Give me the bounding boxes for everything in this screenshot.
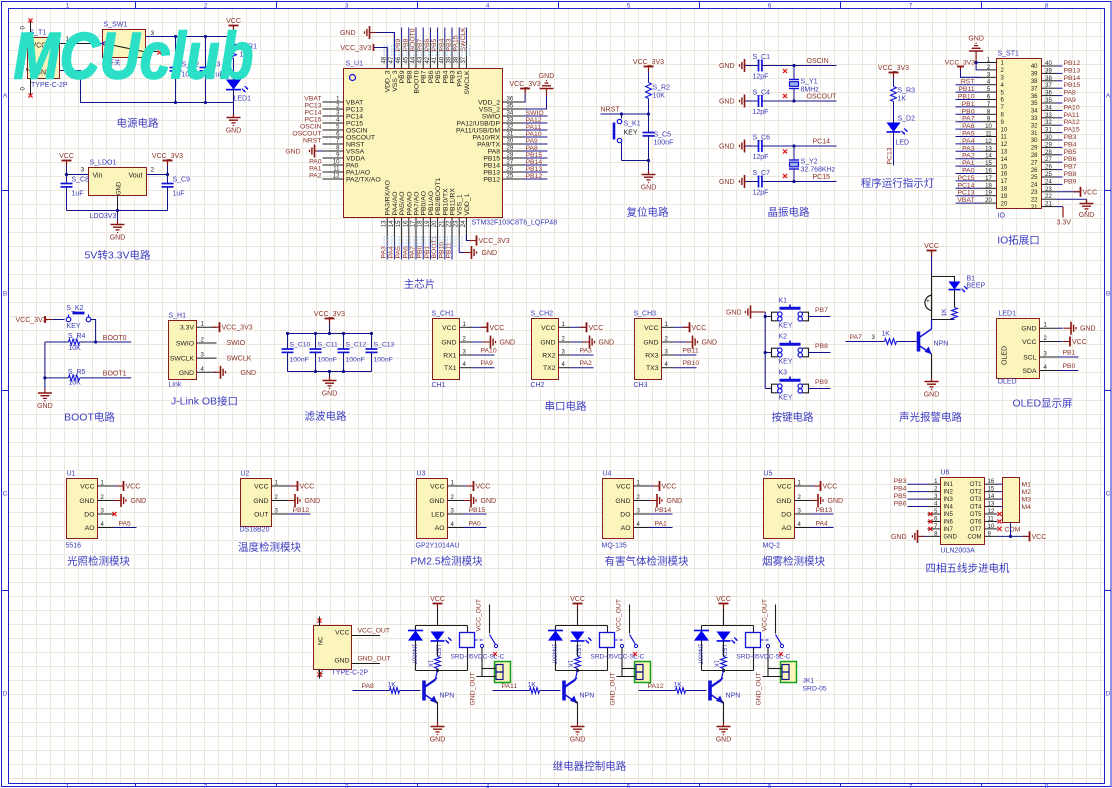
svg-text:S_Y2: S_Y2 <box>801 159 818 166</box>
svg-text:17: 17 <box>1001 179 1008 185</box>
svg-text:BOOT1: BOOT1 <box>431 235 438 258</box>
svg-text:OSCOUT: OSCOUT <box>292 131 321 138</box>
svg-text:VSS_3: VSS_3 <box>392 70 399 91</box>
buzzer symbol <box>925 295 932 319</box>
wire LED1 to GND <box>233 88 235 113</box>
svg-text:6: 6 <box>768 3 772 10</box>
svg-text:PA2/TX/AO: PA2/TX/AO <box>346 177 381 184</box>
svg-text:PB5: PB5 <box>894 493 907 500</box>
svg-text:GND: GND <box>828 498 844 505</box>
svg-text:22: 22 <box>1031 197 1038 203</box>
svg-text:18: 18 <box>1001 187 1008 193</box>
wire R1 to LED1 <box>233 59 235 80</box>
svg-text:33: 33 <box>1045 113 1052 119</box>
svg-text:VCC_3V3: VCC_3V3 <box>340 45 371 52</box>
svg-text:GND_OUT: GND_OUT <box>610 672 617 705</box>
svg-text:PA3/RX/AO: PA3/RX/AO <box>385 180 392 215</box>
wire R3 to D2 <box>893 102 895 123</box>
svg-text:PA1: PA1 <box>309 166 322 173</box>
net PA1 (U4) <box>650 521 673 528</box>
svg-text:35: 35 <box>1031 101 1038 107</box>
power port VCC (alarm) <box>924 243 939 256</box>
svg-text:OSCOUT: OSCOUT <box>346 135 375 142</box>
power VCC (relay PA12) <box>716 596 731 609</box>
svg-text:GND: GND <box>117 181 123 195</box>
net PB13 (U5) <box>811 507 834 514</box>
svg-text:PA2: PA2 <box>309 173 322 180</box>
ground at MCU pin8 VSSA <box>285 145 322 158</box>
resistor 1K (relay PA12) <box>713 641 727 669</box>
svg-text:1K: 1K <box>882 331 891 338</box>
svg-text:BOOT0: BOOT0 <box>103 335 127 342</box>
wire emitter to GND (alarm) <box>931 354 933 378</box>
svg-text:PA6: PA6 <box>402 246 409 259</box>
svg-text:1uF: 1uF <box>173 191 185 198</box>
svg-text:VBAT: VBAT <box>304 96 321 103</box>
svg-text:AO: AO <box>435 525 445 532</box>
svg-text:3: 3 <box>345 3 349 10</box>
svg-text:主芯片: 主芯片 <box>404 278 436 291</box>
base resistor 1K (PA8) <box>353 682 421 694</box>
svg-text:NPN: NPN <box>726 693 741 700</box>
svg-text:VCC_OUT: VCC_OUT <box>762 599 769 631</box>
svg-text:12: 12 <box>333 174 340 180</box>
power port VCC (LDO) <box>59 153 74 166</box>
svg-text:S_C9: S_C9 <box>173 177 191 184</box>
svg-text:24: 24 <box>1045 179 1052 185</box>
svg-text:PB4: PB4 <box>894 486 907 493</box>
svg-text:OSCIN: OSCIN <box>346 128 368 135</box>
svg-text:PB15: PB15 <box>1064 82 1081 89</box>
transistor NPN (relay PA8) <box>424 671 454 704</box>
svg-text:37: 37 <box>1045 83 1052 89</box>
svg-text:PA8: PA8 <box>362 683 375 690</box>
svg-text:VCC: VCC <box>616 484 630 491</box>
svg-text:36: 36 <box>507 97 514 103</box>
module U3 (GP2Y1014AU) <box>416 471 464 550</box>
svg-text:PB10: PB10 <box>438 242 445 259</box>
svg-text:OSCIN: OSCIN <box>300 124 322 131</box>
svg-text:40: 40 <box>1045 61 1052 67</box>
svg-text:16: 16 <box>985 169 992 175</box>
svg-text:PB4: PB4 <box>442 70 449 83</box>
svg-text:PA11: PA11 <box>1064 112 1080 119</box>
svg-text:32.768KHz: 32.768KHz <box>801 167 836 174</box>
svg-text:A: A <box>3 93 8 100</box>
svg-text:VCC: VCC <box>1083 189 1098 196</box>
relay output connector (PA11) <box>617 662 651 683</box>
svg-text:K1: K1 <box>779 298 788 305</box>
svg-text:PB11: PB11 <box>446 242 453 258</box>
serial header S_CH3 <box>634 311 674 390</box>
svg-text:22: 22 <box>1045 194 1052 200</box>
LED of buzzer branch <box>949 282 968 308</box>
svg-text:继电器控制电路: 继电器控制电路 <box>553 760 627 773</box>
net VCC_OUT (relay PA11) <box>616 599 630 633</box>
power VCC (OLED) <box>1058 337 1087 347</box>
svg-text:40: 40 <box>1031 64 1038 70</box>
power VCC at ST1 pin23 <box>1057 187 1098 197</box>
svg-text:1K: 1K <box>388 682 397 689</box>
svg-text:B: B <box>3 291 7 298</box>
svg-text:LED: LED <box>431 512 444 519</box>
svg-text:A: A <box>1106 93 1111 100</box>
ground GND (alarm) <box>924 378 940 399</box>
svg-text:11: 11 <box>1001 135 1008 141</box>
svg-text:有害气体检测模块: 有害气体检测模块 <box>605 555 689 568</box>
svg-text:37: 37 <box>461 56 467 63</box>
svg-text:32: 32 <box>1031 123 1038 129</box>
svg-text:GND: GND <box>719 144 735 151</box>
ground at ST1 pins1-2 <box>968 36 984 70</box>
svg-text:NPN: NPN <box>934 341 949 348</box>
svg-text:PB8: PB8 <box>815 343 828 350</box>
svg-text:PB9: PB9 <box>815 379 828 386</box>
svg-text:AO: AO <box>85 525 95 532</box>
svg-text:PB11/RX: PB11/RX <box>450 188 457 216</box>
svg-text:1K: 1K <box>898 96 907 103</box>
svg-text:IN2: IN2 <box>944 490 954 496</box>
power VCC (U1) <box>114 481 141 491</box>
wire VCC to Vin <box>65 166 89 177</box>
svg-text:1N4007: 1N4007 <box>697 644 703 666</box>
wire VCC to R3 <box>893 78 895 87</box>
svg-text:11: 11 <box>988 516 995 522</box>
ground at MCU pin35 <box>524 73 555 109</box>
svg-text:光照检测模块: 光照检测模块 <box>67 555 130 568</box>
svg-text:PC15: PC15 <box>813 174 831 181</box>
svg-text:5V转3.3V电路: 5V转3.3V电路 <box>85 249 151 262</box>
svg-text:U6: U6 <box>941 470 950 477</box>
svg-text:IN4: IN4 <box>944 505 954 511</box>
svg-text:串口电路: 串口电路 <box>545 400 587 413</box>
wire T1 pin1 to SW1 <box>60 41 103 45</box>
svg-text:1N4007: 1N4007 <box>551 644 557 666</box>
svg-text:GND: GND <box>430 737 446 744</box>
svg-text:IO拓展口: IO拓展口 <box>997 235 1040 247</box>
LED LED1 <box>226 80 251 103</box>
svg-text:VCC: VCC <box>541 325 555 332</box>
ground (CH1) <box>472 336 516 349</box>
svg-text:PA4: PA4 <box>388 246 395 259</box>
svg-text:PB11: PB11 <box>683 348 699 355</box>
svg-text:Vin: Vin <box>93 173 103 180</box>
svg-text:VCC: VCC <box>1022 339 1036 346</box>
capacitor S_C11 100nF <box>310 334 338 372</box>
svg-text:PA3: PA3 <box>580 348 593 355</box>
svg-text:40: 40 <box>439 56 445 63</box>
svg-text:TYPE-C-2P: TYPE-C-2P <box>332 670 369 677</box>
svg-text:PB15: PB15 <box>483 156 500 163</box>
svg-text:14: 14 <box>988 494 995 500</box>
svg-text:16: 16 <box>988 479 995 485</box>
net PB10 (CH3) <box>674 360 700 368</box>
relay switch (PA11) <box>615 635 638 657</box>
capacitor S_C6 12pF / net PC14 <box>719 135 837 162</box>
wire relay top rail (PA11) <box>556 609 608 671</box>
title 烟雾检测模块 <box>762 555 825 568</box>
svg-text:S_Y1: S_Y1 <box>801 79 818 86</box>
relay box (PA8) <box>460 633 475 648</box>
svg-text:VCC_3V3: VCC_3V3 <box>945 60 975 67</box>
resistor S_R2 10K <box>646 83 671 100</box>
svg-text:PB4: PB4 <box>1064 141 1077 148</box>
svg-text:按键电路: 按键电路 <box>772 411 814 424</box>
svg-text:10K: 10K <box>653 93 666 100</box>
svg-text:PA2: PA2 <box>580 360 593 367</box>
MCU left net labels <box>292 96 321 180</box>
title 主芯片 <box>404 278 436 291</box>
LED (relay PA12) <box>717 632 738 657</box>
svg-text:OT3: OT3 <box>970 497 982 503</box>
svg-text:26: 26 <box>1031 168 1038 174</box>
wire VCC to R1 <box>233 31 235 44</box>
svg-text:20: 20 <box>432 220 438 227</box>
svg-text:PB1: PB1 <box>424 245 431 258</box>
svg-text:25: 25 <box>1031 175 1038 181</box>
svg-text:MCUclub: MCUclub <box>14 19 254 93</box>
svg-text:GP2Y1014AU: GP2Y1014AU <box>416 543 460 550</box>
power port VCC_3V3 (boot) <box>16 316 53 324</box>
stepper connector M <box>998 478 1032 523</box>
resistor S_R4 10K <box>45 333 131 352</box>
svg-text:S_C12: S_C12 <box>346 342 367 349</box>
svg-text:30: 30 <box>1045 135 1052 141</box>
svg-text:VSSA: VSSA <box>346 149 365 156</box>
net PA4 (U5) <box>811 521 834 528</box>
svg-text:14: 14 <box>1001 157 1008 163</box>
svg-text:KEY: KEY <box>624 130 638 137</box>
svg-text:OT5: OT5 <box>970 512 982 518</box>
svg-text:4: 4 <box>486 784 490 788</box>
svg-text:KEY: KEY <box>779 323 793 330</box>
ground (CH2) <box>571 336 615 349</box>
svg-text:S_CH3: S_CH3 <box>634 311 657 318</box>
svg-text:OT1: OT1 <box>970 482 982 488</box>
svg-text:GND: GND <box>500 340 516 347</box>
svg-text:PB14: PB14 <box>1064 75 1081 82</box>
svg-text:1K: 1K <box>528 682 537 689</box>
title 有害气体检测模块 <box>605 555 689 568</box>
svg-text:VCC: VCC <box>490 325 505 332</box>
no-connect SW1 lower pin <box>146 50 162 54</box>
power VCC (stepper) <box>1023 531 1047 541</box>
svg-text:PA3: PA3 <box>381 246 388 259</box>
svg-text:16: 16 <box>403 220 409 227</box>
svg-text:SWCLK: SWCLK <box>227 356 252 363</box>
ground (U6) <box>891 530 928 543</box>
svg-text:COM: COM <box>1005 527 1021 534</box>
key S_K1 <box>614 114 641 161</box>
svg-text:20: 20 <box>1001 201 1008 207</box>
svg-text:SRD-05VDC-SL-C: SRD-05VDC-SL-C <box>451 654 505 661</box>
svg-text:PB1: PB1 <box>1063 350 1076 357</box>
svg-text:PA11: PA11 <box>502 683 518 690</box>
svg-text:GND: GND <box>776 498 791 505</box>
connector S_T1 (TYPE-C-2P) <box>27 30 70 90</box>
svg-text:BEEP: BEEP <box>967 283 986 290</box>
net PA9 (CH1) <box>472 360 495 368</box>
label SRD-05VDC-SL-C (PA8) <box>451 654 505 661</box>
buzzer B1 BEEP top frame <box>932 276 986 296</box>
svg-text:13: 13 <box>985 146 992 152</box>
MCUclub watermark <box>14 19 254 93</box>
svg-text:1N4007: 1N4007 <box>411 644 417 666</box>
capacitor S_C5 100nF <box>643 132 674 161</box>
base resistor 1K (PA11) <box>493 682 561 694</box>
svg-text:11: 11 <box>333 167 340 173</box>
svg-text:45: 45 <box>403 56 409 63</box>
svg-text:22: 22 <box>447 220 453 227</box>
svg-text:GND: GND <box>719 63 735 70</box>
svg-text:PB13: PB13 <box>816 507 833 514</box>
svg-text:VCC_3V3: VCC_3V3 <box>479 238 510 245</box>
svg-text:21: 21 <box>1031 205 1038 211</box>
svg-text:PB9: PB9 <box>1064 178 1077 185</box>
svg-text:S_C8: S_C8 <box>72 177 90 184</box>
wire key bus <box>764 312 772 389</box>
svg-text:PB1/AO: PB1/AO <box>428 191 435 216</box>
svg-text:12pF: 12pF <box>753 74 769 81</box>
wire VCC to R2 <box>648 72 650 83</box>
ground GND (reset) <box>641 161 657 192</box>
svg-text:VCC: VCC <box>126 484 141 491</box>
ground GND (keys) <box>726 306 765 319</box>
svg-text:烟雾检测模块: 烟雾检测模块 <box>762 555 825 568</box>
svg-text:U2: U2 <box>241 471 250 478</box>
MCU right net labels <box>524 110 548 180</box>
svg-text:MQ-135: MQ-135 <box>602 543 627 550</box>
svg-text:1K: 1K <box>674 682 683 689</box>
svg-text:PA9/TX: PA9/TX <box>477 142 500 149</box>
power VCC_3V3 at MCU pin36 <box>510 81 541 102</box>
svg-text:GND_OUT: GND_OUT <box>756 672 763 705</box>
svg-text:GND: GND <box>599 340 615 347</box>
svg-text:OLED: OLED <box>1002 346 1009 365</box>
title 串口电路 <box>545 400 587 413</box>
svg-text:SWIO: SWIO <box>176 341 194 348</box>
svg-text:VCC: VCC <box>1072 339 1087 346</box>
svg-text:PB15: PB15 <box>469 507 486 514</box>
svg-text:LED1: LED1 <box>999 311 1017 318</box>
wire relay top rail (PA12) <box>702 609 754 671</box>
power VCC_3V3 (jlink) <box>213 322 253 332</box>
svg-text:38: 38 <box>454 56 460 63</box>
resistor 1K (relay PA11) <box>567 641 581 669</box>
svg-text:PC14: PC14 <box>304 110 321 117</box>
key K1 <box>772 298 809 330</box>
wire D2 to PC13 <box>887 131 894 165</box>
svg-text:KEY: KEY <box>779 395 793 402</box>
wire buzzer bottom rail <box>932 319 955 321</box>
svg-text:PA10: PA10 <box>481 348 497 355</box>
title 四相五线步进电机 <box>926 562 1010 575</box>
diode 1N4007 (PA11) <box>548 631 563 666</box>
svg-text:PB3: PB3 <box>450 70 457 83</box>
svg-text:VSS_1: VSS_1 <box>457 194 464 215</box>
crystal S_Y1 8MHz <box>783 66 819 102</box>
svg-text:7: 7 <box>909 3 913 10</box>
capacitor S_C13 100nF <box>366 334 395 372</box>
svg-text:S_C10: S_C10 <box>290 342 311 349</box>
title J-Link OB接口 <box>171 395 238 408</box>
svg-text:S_U1: S_U1 <box>346 61 364 68</box>
J-Link header S_H1 <box>169 313 217 389</box>
svg-text:100nF: 100nF <box>318 357 337 364</box>
svg-text:PA0: PA0 <box>309 159 322 166</box>
svg-text:GND: GND <box>615 498 630 505</box>
connector TYPE-C-2P (relay) <box>314 617 391 679</box>
svg-text:5: 5 <box>627 3 631 10</box>
svg-text:16: 16 <box>1001 172 1008 178</box>
power VCC_3V3 at ST1 pin3 <box>945 60 982 78</box>
svg-text:JK1: JK1 <box>803 678 815 685</box>
relay switch (PA8) <box>475 635 498 657</box>
svg-text:100nF: 100nF <box>290 357 309 364</box>
power port VCC_3V3 (LDO) <box>152 153 183 166</box>
svg-text:GND: GND <box>924 392 940 399</box>
no-connect pins of S_T1 <box>21 18 33 97</box>
svg-text:VCC: VCC <box>823 484 838 491</box>
ground GND (boot) <box>37 389 53 410</box>
svg-text:VCC_3V3: VCC_3V3 <box>16 317 47 324</box>
power VCC (U4) <box>650 481 677 491</box>
svg-text:PA0: PA0 <box>469 521 482 528</box>
svg-text:35: 35 <box>507 104 514 110</box>
svg-text:VCC_3V3: VCC_3V3 <box>222 325 253 332</box>
svg-text:PA7: PA7 <box>410 246 417 259</box>
svg-text:J-Link OB接口: J-Link OB接口 <box>171 395 238 408</box>
wire GND bus (boot) <box>43 342 46 390</box>
svg-text:OSCOUT: OSCOUT <box>807 94 838 101</box>
svg-text:S_C1: S_C1 <box>753 54 771 61</box>
svg-text:27: 27 <box>507 160 514 166</box>
svg-text:34: 34 <box>1031 109 1038 115</box>
svg-text:四相五线步进电机: 四相五线步进电机 <box>926 562 1010 575</box>
title 声光报警电路 <box>899 411 962 424</box>
compile-mask dots (top pins) <box>384 46 471 55</box>
IO header net labels <box>956 60 1081 204</box>
svg-text:21: 21 <box>1045 202 1052 208</box>
power VCC (relay PA11) <box>570 596 585 609</box>
svg-text:GND: GND <box>37 403 53 410</box>
power VCC (U2) <box>288 481 315 491</box>
resistor S_R3 1K <box>891 87 916 103</box>
svg-text:PB0/AO: PB0/AO <box>421 191 428 216</box>
capacitor S_C10 100nF <box>282 334 311 372</box>
svg-text:M4: M4 <box>1022 504 1032 511</box>
wire K2 to BOOT0 node <box>91 320 98 344</box>
wire T1 pin2 down to bottom rail <box>60 71 234 105</box>
svg-text:7: 7 <box>909 784 913 788</box>
wire emitter (relay PA11) <box>575 701 578 723</box>
svg-text:PB3: PB3 <box>1064 134 1077 141</box>
svg-text:44: 44 <box>411 56 417 63</box>
svg-text:15: 15 <box>1001 164 1008 170</box>
svg-text:20: 20 <box>985 198 992 204</box>
U6 unused output no-connects <box>997 512 1001 531</box>
svg-text:VCC_OUT: VCC_OUT <box>358 628 390 635</box>
svg-text:程序运行指示灯: 程序运行指示灯 <box>861 177 935 190</box>
svg-text:C: C <box>1106 491 1111 498</box>
power VCC (CH3) <box>674 322 707 332</box>
svg-text:PB12: PB12 <box>483 177 500 184</box>
svg-text:13: 13 <box>1001 150 1008 156</box>
svg-text:DO: DO <box>620 512 630 519</box>
svg-text:KEY: KEY <box>779 359 793 366</box>
svg-text:GND: GND <box>253 498 268 505</box>
svg-text:PB13: PB13 <box>483 170 500 177</box>
